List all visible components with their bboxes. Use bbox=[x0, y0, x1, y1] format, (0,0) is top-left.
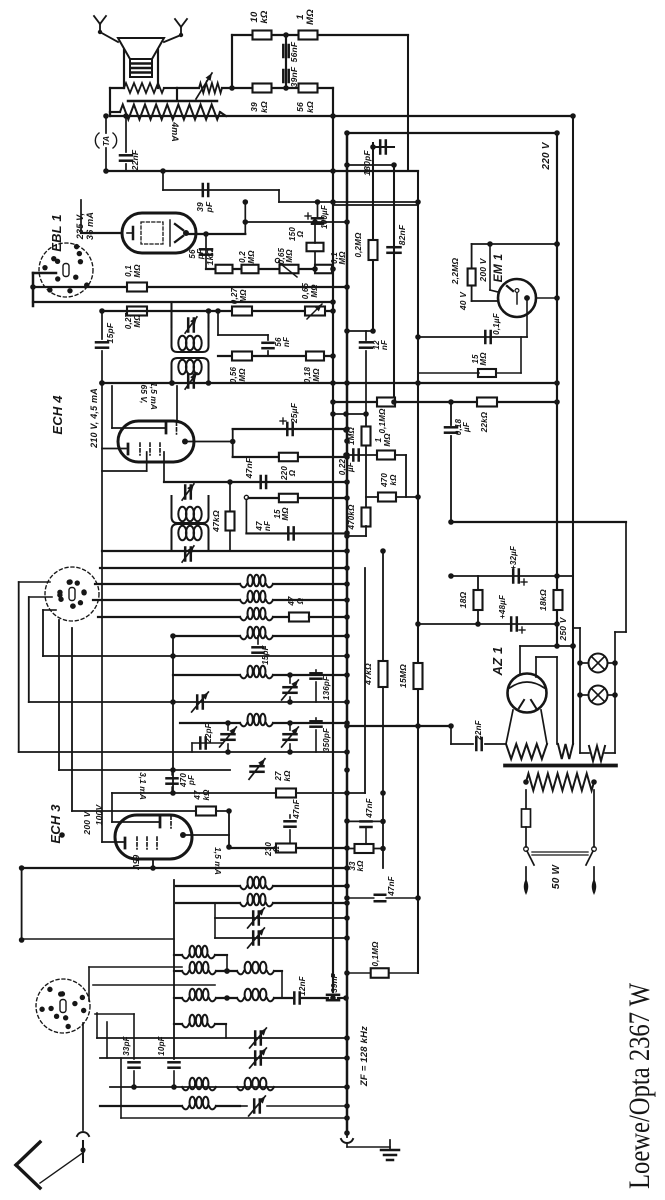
svg-text:47nF: 47nF bbox=[387, 875, 396, 896]
svg-text:47nF: 47nF bbox=[292, 798, 301, 819]
svg-text:100µF: 100µF bbox=[320, 204, 329, 229]
svg-text:2,2MΩ: 2,2MΩ bbox=[450, 258, 460, 286]
svg-text:210 V, 4,5 mA: 210 V, 4,5 mA bbox=[89, 388, 99, 449]
svg-text:22nF: 22nF bbox=[474, 719, 483, 740]
svg-text:4mA: 4mA bbox=[170, 121, 180, 142]
svg-text:15MΩ: 15MΩ bbox=[398, 664, 408, 688]
svg-text:kΩ: kΩ bbox=[259, 101, 269, 113]
svg-text:3,1 mA: 3,1 mA bbox=[138, 772, 148, 800]
svg-text:200 V: 200 V bbox=[478, 257, 488, 282]
svg-text:MΩ: MΩ bbox=[479, 352, 488, 366]
svg-text:1,5 mA: 1,5 mA bbox=[213, 847, 223, 875]
svg-text:136pF: 136pF bbox=[322, 675, 331, 700]
svg-text:18Ω: 18Ω bbox=[458, 591, 468, 608]
svg-text:100V: 100V bbox=[94, 804, 104, 826]
svg-text:235 V,: 235 V, bbox=[75, 213, 85, 240]
svg-text:+32µF: +32µF bbox=[509, 545, 518, 570]
svg-text:kΩ: kΩ bbox=[202, 789, 211, 801]
svg-text:kΩ: kΩ bbox=[283, 770, 292, 782]
svg-text:0,1MΩ: 0,1MΩ bbox=[371, 941, 380, 967]
svg-text:Ω: Ω bbox=[288, 469, 297, 477]
svg-text:40 V: 40 V bbox=[458, 291, 468, 311]
svg-text:MΩ: MΩ bbox=[133, 314, 142, 328]
svg-text:kΩ: kΩ bbox=[259, 10, 270, 23]
svg-text:33pF: 33pF bbox=[122, 1035, 131, 1055]
svg-text:MΩ: MΩ bbox=[383, 433, 392, 447]
svg-text:56: 56 bbox=[295, 102, 305, 112]
svg-text:0,18: 0,18 bbox=[303, 366, 312, 383]
svg-text:Ω: Ω bbox=[272, 845, 281, 853]
svg-text:47: 47 bbox=[287, 596, 296, 607]
svg-text:36 mA: 36 mA bbox=[85, 212, 95, 240]
svg-text:65 V,: 65 V, bbox=[139, 384, 149, 403]
svg-text:MΩ: MΩ bbox=[305, 9, 316, 25]
svg-text:0,1µF: 0,1µF bbox=[492, 312, 501, 335]
svg-text:180pF: 180pF bbox=[362, 150, 372, 176]
svg-text:kΩ: kΩ bbox=[356, 860, 365, 872]
svg-text:47kΩ: 47kΩ bbox=[211, 510, 221, 533]
svg-text:MΩ: MΩ bbox=[238, 368, 247, 382]
svg-text:MΩ: MΩ bbox=[247, 250, 256, 264]
svg-text:0,27: 0,27 bbox=[230, 287, 239, 304]
svg-text:MΩ: MΩ bbox=[239, 289, 248, 303]
svg-text:TA: TA bbox=[102, 136, 111, 146]
svg-text:0,56: 0,56 bbox=[229, 366, 238, 383]
svg-text:ECH 3: ECH 3 bbox=[48, 804, 63, 844]
svg-text:pF: pF bbox=[196, 248, 205, 260]
svg-text:µF: µF bbox=[346, 461, 355, 473]
svg-text:22nF: 22nF bbox=[130, 149, 140, 171]
svg-text:pF: pF bbox=[187, 774, 196, 786]
svg-text:56nF: 56nF bbox=[289, 41, 299, 62]
svg-text:1: 1 bbox=[374, 437, 383, 442]
svg-text:pF: pF bbox=[204, 201, 214, 213]
svg-text:47: 47 bbox=[193, 790, 202, 801]
svg-text:220 V: 220 V bbox=[541, 141, 552, 170]
svg-text:25µF: 25µF bbox=[289, 402, 299, 424]
svg-text:Loewe/Opta 2367 W: Loewe/Opta 2367 W bbox=[624, 983, 656, 1189]
svg-text:MΩ: MΩ bbox=[312, 368, 321, 382]
svg-text:ECH 4: ECH 4 bbox=[50, 395, 65, 435]
svg-text:1,5 mA: 1,5 mA bbox=[149, 382, 159, 410]
svg-text:22pF: 22pF bbox=[204, 722, 213, 743]
svg-text:MΩ: MΩ bbox=[281, 507, 290, 521]
svg-text:µF: µF bbox=[462, 421, 471, 433]
svg-text:0,27: 0,27 bbox=[124, 312, 133, 329]
svg-text:47kΩ: 47kΩ bbox=[363, 663, 373, 686]
svg-text:12nF: 12nF bbox=[298, 975, 307, 995]
svg-text:15pF: 15pF bbox=[261, 644, 270, 664]
svg-text:47nF: 47nF bbox=[365, 797, 374, 818]
svg-text:470: 470 bbox=[380, 473, 389, 488]
svg-text:39: 39 bbox=[249, 102, 259, 112]
svg-text:50 W: 50 W bbox=[551, 864, 562, 890]
svg-text:0,2MΩ: 0,2MΩ bbox=[354, 232, 363, 258]
svg-text:0,65: 0,65 bbox=[301, 282, 310, 299]
svg-text:nF: nF bbox=[380, 339, 389, 350]
svg-text:+48µF: +48µF bbox=[498, 594, 507, 619]
svg-text:18kΩ: 18kΩ bbox=[538, 589, 548, 611]
svg-text:27: 27 bbox=[274, 771, 283, 782]
svg-text:0,1MΩ: 0,1MΩ bbox=[378, 408, 387, 434]
svg-text:350pF: 350pF bbox=[322, 727, 331, 752]
svg-text:470kΩ: 470kΩ bbox=[347, 504, 356, 531]
svg-text:MΩ: MΩ bbox=[338, 251, 347, 265]
svg-text:ZF = 128 kHz: ZF = 128 kHz bbox=[359, 1026, 370, 1087]
svg-text:EBL 1: EBL 1 bbox=[49, 214, 64, 252]
svg-text:nF: nF bbox=[263, 520, 272, 531]
svg-text:47nF: 47nF bbox=[244, 457, 254, 479]
svg-text:0,2: 0,2 bbox=[238, 251, 247, 263]
svg-text:MΩ: MΩ bbox=[133, 264, 142, 278]
svg-text:nF: nF bbox=[282, 336, 291, 347]
svg-text:MΩ: MΩ bbox=[285, 249, 294, 263]
svg-text:39nF: 39nF bbox=[330, 972, 339, 992]
svg-text:kΩ: kΩ bbox=[305, 101, 315, 113]
svg-text:AZ 1: AZ 1 bbox=[490, 647, 505, 677]
svg-text:22kΩ: 22kΩ bbox=[480, 411, 489, 433]
svg-text:1kΩ: 1kΩ bbox=[205, 248, 215, 265]
svg-text:MΩ: MΩ bbox=[310, 284, 319, 298]
svg-text:0,1: 0,1 bbox=[124, 265, 133, 277]
svg-text:kΩ: kΩ bbox=[389, 474, 398, 486]
svg-text:200 V: 200 V bbox=[82, 810, 92, 835]
svg-text:EM 1: EM 1 bbox=[491, 253, 505, 282]
svg-text:10pF: 10pF bbox=[157, 1035, 166, 1055]
svg-text:Ω: Ω bbox=[296, 230, 305, 238]
svg-text:250 V: 250 V bbox=[558, 616, 568, 641]
svg-text:15pF: 15pF bbox=[105, 322, 115, 343]
svg-text:82nF: 82nF bbox=[397, 224, 407, 245]
svg-text:Ω: Ω bbox=[296, 597, 305, 605]
